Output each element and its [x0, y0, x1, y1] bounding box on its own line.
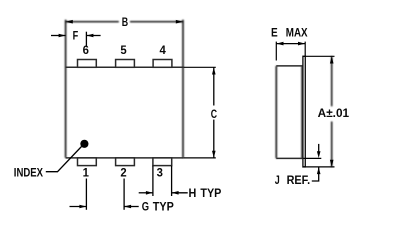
dimension F arrowheads [59, 34, 94, 38]
dimension J arrowheads [317, 151, 321, 174]
svg-text:REF.: REF. [287, 175, 311, 187]
svg-text:B: B [122, 17, 128, 29]
lead bottom extension line [303, 166, 335, 168]
pin 3 [153, 158, 172, 166]
dimension A arrowheads [330, 56, 334, 167]
svg-text:E: E [271, 28, 278, 40]
dimension B arrowheads [66, 20, 183, 24]
lead (side view) [303, 56, 305, 167]
package body (top view) [66, 20, 183, 158]
svg-text:6: 6 [83, 45, 89, 57]
dimension G arrowheads [79, 205, 131, 209]
package body (side view) [276, 66, 302, 158]
svg-text:1: 1 [83, 167, 90, 179]
svg-text:G: G [142, 201, 149, 213]
dimension G extension lines [70, 179, 139, 210]
svg-text:H: H [189, 188, 197, 200]
dimension C line [213, 67, 215, 158]
pin 1 [78, 158, 97, 166]
pin 5 [116, 60, 135, 68]
svg-text:3: 3 [157, 167, 163, 179]
svg-text:F: F [73, 31, 79, 43]
dimension B line [66, 21, 183, 23]
INDEX dot [80, 140, 88, 148]
pin 4 [153, 60, 172, 68]
svg-text:MAX: MAX [286, 28, 308, 40]
dimension J arrow stems and leader [312, 144, 319, 181]
svg-text:4: 4 [160, 45, 167, 57]
svg-text:J: J [275, 175, 280, 187]
svg-text:TYP: TYP [200, 188, 221, 200]
svg-text:2: 2 [120, 167, 126, 179]
dimension C extension lines [184, 67, 216, 158]
dimension H extension lines [139, 166, 188, 196]
package body horizontal edges (top view) [66, 67, 184, 158]
dimension H arrowheads [146, 191, 179, 195]
svg-text:INDEX: INDEX [14, 168, 43, 180]
dimension E arrowheads [276, 42, 305, 46]
pin 2 [116, 158, 135, 166]
svg-text:C: C [211, 109, 217, 121]
lead top extension line [303, 55, 335, 57]
svg-text:5: 5 [120, 45, 127, 57]
dimension E extension lines [276, 42, 305, 61]
dimension C arrowheads [212, 67, 216, 158]
pin 6 [78, 60, 97, 68]
side body bottom extension line [304, 157, 322, 159]
package body horizontal edges (side view) [276, 66, 303, 158]
dimension A line [331, 56, 333, 167]
dimension F arrow lines [51, 32, 101, 46]
dimension E line [276, 43, 305, 45]
svg-text:TYP: TYP [153, 201, 174, 213]
INDEX leader [46, 147, 82, 172]
svg-text:A±.01: A±.01 [318, 108, 350, 120]
